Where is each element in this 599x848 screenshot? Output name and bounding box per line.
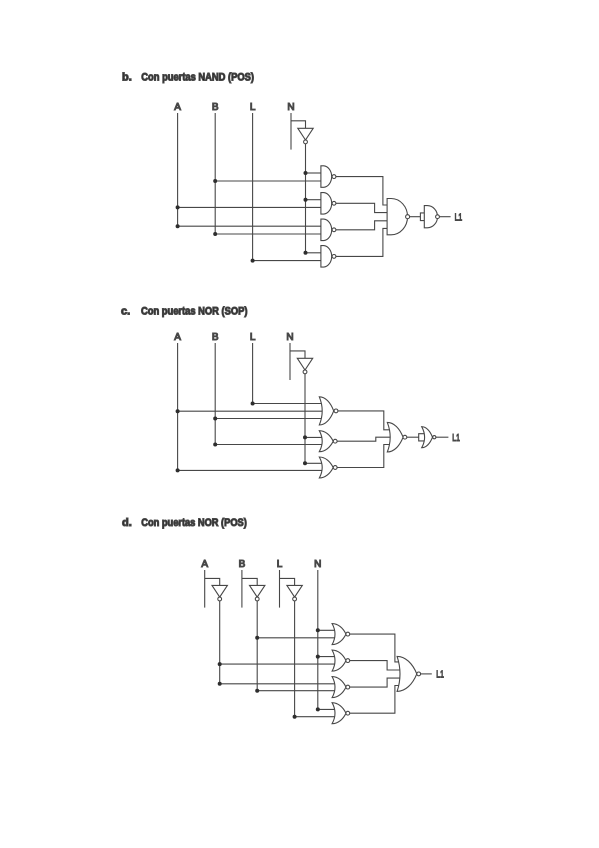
input label N (d) <box>314 559 321 570</box>
svg-text:B: B <box>212 102 219 113</box>
output label L1 (d) <box>436 670 444 681</box>
input label L (d) <box>277 559 283 570</box>
input label N <box>287 102 294 113</box>
4-input NAND gate G5 <box>387 199 410 235</box>
input label A (d) <box>201 559 208 570</box>
NOR gate G8 <box>319 431 337 452</box>
node N to nor1 (d) <box>316 628 336 632</box>
wire A to gate2 <box>176 205 321 209</box>
wire A to gate3 <box>176 224 321 228</box>
input label B (c) <box>212 332 219 343</box>
wire input L vertical (c) <box>252 343 254 404</box>
wire G5 out <box>410 216 421 218</box>
wire B to gate3 <box>213 232 321 236</box>
input label N (c) <box>286 332 293 343</box>
wire L to nor1 <box>251 402 324 406</box>
wire input A vertical (c) <box>177 343 179 470</box>
svg-text:A: A <box>174 332 181 343</box>
node N' to nor2 <box>303 435 323 439</box>
wire input L vertical (d) <box>279 570 281 608</box>
NOR gate G14 <box>332 677 350 698</box>
NAND inverter G6 <box>424 206 439 228</box>
wire input A vertical <box>177 113 179 226</box>
input label B (d) <box>239 559 246 570</box>
NOR gate G12 <box>332 624 350 645</box>
NOR inverter G11 <box>422 427 436 448</box>
wire inverted-N vertical <box>305 144 307 253</box>
wire N to inverter <box>291 121 306 129</box>
wire input B vertical (c) <box>214 343 216 445</box>
inverter on B input <box>250 585 265 600</box>
wire B' to nor3 (d) <box>255 689 336 693</box>
svg-text:Con puertas NAND (POS): Con puertas NAND (POS) <box>141 72 254 84</box>
svg-text:b.: b. <box>122 72 132 84</box>
svg-text:L1: L1 <box>455 213 463 224</box>
svg-text:Con puertas NOR (POS): Con puertas NOR (POS) <box>141 517 247 529</box>
inverter on N input (c) <box>297 358 312 374</box>
input label A <box>174 102 181 113</box>
input label A (c) <box>174 332 181 343</box>
wire A to inverter <box>205 578 220 585</box>
section b heading <box>122 72 254 84</box>
svg-text:L1: L1 <box>452 433 460 444</box>
inverter on N input <box>298 128 313 144</box>
svg-text:N: N <box>287 102 294 113</box>
wire nor3 out (d) <box>350 678 402 687</box>
output label L1 (c) <box>452 433 460 444</box>
svg-text:B: B <box>212 332 219 343</box>
svg-text:Con puertas NOR (SOP): Con puertas NOR (SOP) <box>141 305 248 317</box>
wire input N vertical (c) <box>289 343 291 380</box>
tied-input bracket G6 <box>420 213 424 221</box>
wire B' to nor1 (d) <box>255 636 336 640</box>
output label L1 (b) <box>455 213 463 224</box>
node N to nor2 (d) <box>316 655 336 659</box>
NOR gate G15 <box>332 703 350 724</box>
wire nor2 out (d) <box>350 661 402 670</box>
wire inverted-L vertical <box>294 601 296 717</box>
wire N to inverter (c) <box>290 351 305 358</box>
inverter on A input <box>212 585 227 600</box>
wire B to nor2 <box>213 443 323 447</box>
NOR gate G13 <box>332 650 350 671</box>
wire gate3 out <box>336 221 387 230</box>
wire inverted-A vertical <box>219 601 221 684</box>
svg-text:A: A <box>201 559 208 570</box>
NAND gate G4 <box>321 246 336 268</box>
wire nor1 out (d) <box>350 634 400 662</box>
wire B to nor1 <box>213 417 323 421</box>
wire inverted-B vertical <box>256 601 258 691</box>
NAND gate G1 <box>321 166 336 188</box>
NAND gate G3 <box>321 219 336 241</box>
wire G10 out <box>407 436 419 438</box>
inverter on L input <box>287 585 302 600</box>
wire input N vertical (d) <box>317 570 319 709</box>
3-input NOR gate G10 <box>387 422 407 452</box>
wire G16 out to L1 <box>421 673 432 675</box>
svg-text:N: N <box>286 332 293 343</box>
svg-text:L: L <box>277 559 283 570</box>
node N to nor4 (d) <box>316 707 336 711</box>
section c heading <box>121 305 248 317</box>
wire A to nor1 <box>176 409 324 413</box>
svg-text:L1: L1 <box>436 670 444 681</box>
section d heading <box>122 517 247 529</box>
input label L <box>250 102 256 113</box>
wire B to inverter <box>242 578 257 585</box>
tied-input bracket G11 <box>419 434 425 441</box>
wire nor4 out (d) <box>350 686 400 714</box>
svg-text:d.: d. <box>122 517 132 529</box>
wire gate2 out <box>336 203 387 212</box>
wire G6 out to L1 <box>439 216 450 218</box>
input label B <box>212 102 219 113</box>
wire input B vertical (d) <box>241 570 243 608</box>
wire gate1 out <box>336 177 387 205</box>
svg-text:c.: c. <box>121 305 130 317</box>
NOR gate G9 <box>319 457 337 478</box>
node N' to gate2 <box>304 198 321 202</box>
wire input A vertical (d) <box>204 570 206 608</box>
node N' to nor3 <box>303 461 323 465</box>
wire L to inverter <box>280 578 295 585</box>
svg-text:B: B <box>239 559 246 570</box>
wire nor1 out <box>338 411 389 430</box>
wire input N vertical <box>290 113 292 150</box>
svg-text:N: N <box>314 559 321 570</box>
input label L (c) <box>250 332 256 343</box>
wire L' to nor4 (d) <box>293 715 336 719</box>
wire input L vertical <box>252 113 254 261</box>
wire A to nor3 <box>176 468 324 472</box>
svg-text:L: L <box>250 332 256 343</box>
wire gate4 out <box>336 228 387 256</box>
svg-text:A: A <box>174 102 181 113</box>
svg-text:L: L <box>250 102 256 113</box>
node N' to gate4 <box>304 251 321 255</box>
wire input B vertical <box>214 113 216 234</box>
4-input NOR gate G16 <box>397 656 421 691</box>
wire G11 out to L1 <box>436 436 449 438</box>
wire L to gate4 <box>251 259 321 263</box>
wire A' to nor2 (d) <box>218 662 336 666</box>
wire inverted-N vertical (c) <box>304 374 306 464</box>
wire nor3 out <box>337 445 389 468</box>
wire nor2 out <box>337 437 391 441</box>
wire B to gate1 <box>213 179 321 183</box>
node N' to gate1 <box>304 171 321 175</box>
3-input NOR gate G7 <box>319 397 338 425</box>
NAND gate G2 <box>321 193 336 215</box>
wire A' to nor3 (d) <box>218 682 336 686</box>
